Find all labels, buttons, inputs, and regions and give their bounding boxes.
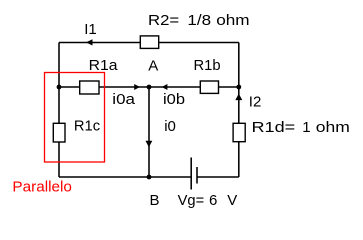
svg-text:Parallelo: Parallelo [12, 179, 72, 196]
svg-text:i0: i0 [164, 118, 176, 135]
svg-text:R1c: R1c [74, 119, 101, 135]
svg-text:1: 1 [302, 119, 310, 136]
svg-text:Vg=: Vg= [178, 193, 205, 209]
svg-text:R1a: R1a [89, 58, 118, 75]
svg-text:I2: I2 [249, 93, 262, 110]
svg-text:V: V [227, 192, 237, 209]
svg-text:ohm: ohm [316, 119, 350, 136]
svg-text:i0a: i0a [112, 92, 135, 108]
svg-text:i0b: i0b [163, 92, 185, 108]
svg-text:ohm: ohm [216, 12, 249, 29]
svg-text:B: B [150, 192, 160, 209]
svg-text:A: A [148, 58, 158, 75]
svg-text:R2=: R2= [148, 13, 179, 29]
svg-text:R1d=: R1d= [252, 118, 296, 135]
svg-text:6: 6 [209, 192, 217, 209]
svg-text:I1: I1 [84, 21, 97, 38]
svg-text:1/8: 1/8 [187, 12, 211, 29]
svg-text:R1b: R1b [194, 58, 221, 74]
